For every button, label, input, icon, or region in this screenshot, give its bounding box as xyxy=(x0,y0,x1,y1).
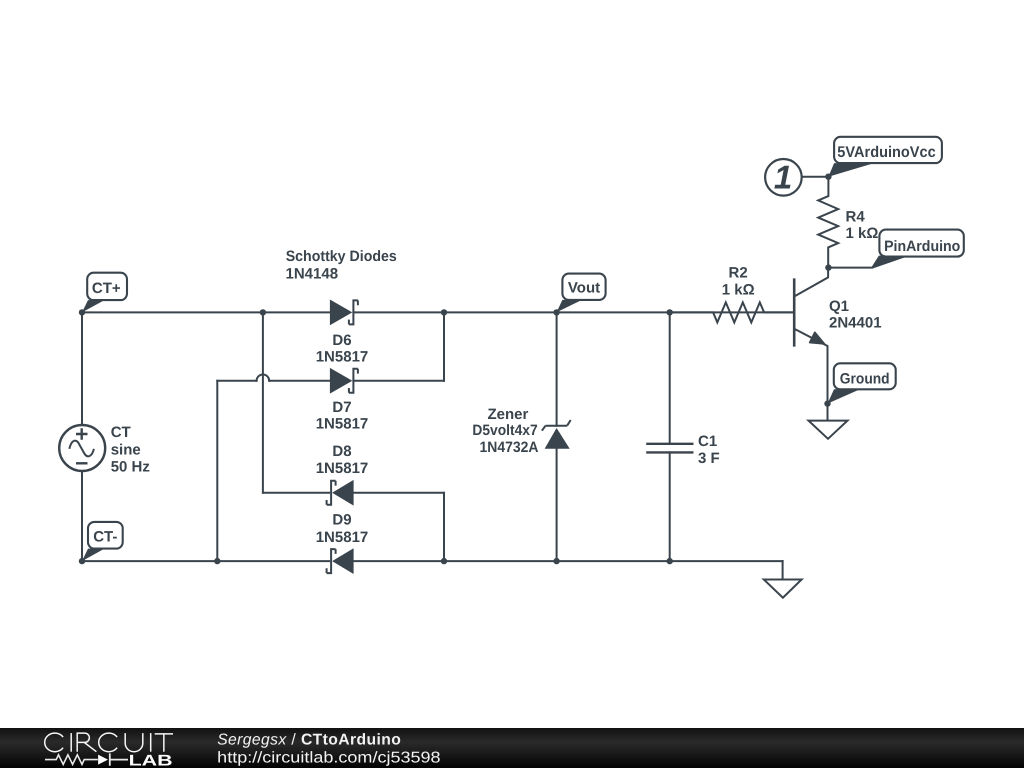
junction node Ground xyxy=(824,400,830,406)
transistor Q1 xyxy=(794,268,828,404)
svg-text:PinArduino: PinArduino xyxy=(884,238,960,255)
svg-text:1N5817: 1N5817 xyxy=(316,348,369,365)
flag 5VArduinoVcc xyxy=(828,137,941,177)
junction top rail / D8 branch xyxy=(260,309,266,315)
wire hop over x=262.9 xyxy=(257,374,270,380)
svg-text:3 F: 3 F xyxy=(698,450,720,467)
I xyxy=(150,733,152,752)
junction top rail / D7 branch xyxy=(441,309,447,315)
junction bottom rail / zener branch xyxy=(553,558,559,564)
svg-text:sine: sine xyxy=(111,441,141,458)
flag CT+ xyxy=(82,273,127,313)
svg-text:1N5817: 1N5817 xyxy=(316,460,369,477)
svg-text:1 kΩ: 1 kΩ xyxy=(722,281,755,298)
wire vertical x=444 lower xyxy=(443,493,445,561)
svg-text:50 Hz: 50 Hz xyxy=(111,459,150,476)
svg-text:1N4732A: 1N4732A xyxy=(480,439,539,456)
junction node CT+ top rail xyxy=(79,309,85,315)
svg-text:1: 1 xyxy=(774,158,792,195)
wire bottom right ground stub xyxy=(782,561,784,579)
diode D6 xyxy=(330,300,358,324)
logo diode xyxy=(98,755,108,765)
svg-text:D8: D8 xyxy=(332,443,351,460)
svg-text:Q1: Q1 xyxy=(829,298,849,315)
wire vertical x=262.9 xyxy=(262,312,264,492)
svg-text:1N5817: 1N5817 xyxy=(316,415,369,432)
flag PinArduino xyxy=(828,230,963,268)
voltage source CT xyxy=(59,425,105,471)
resistor R2 xyxy=(670,302,794,322)
U xyxy=(125,733,143,752)
svg-text:C1: C1 xyxy=(698,433,717,450)
svg-text:http://circuitlab.com/cj53598: http://circuitlab.com/cj53598 xyxy=(217,750,441,767)
diode D7 xyxy=(330,369,358,393)
flag Ground xyxy=(828,363,896,403)
node 1 circle xyxy=(765,158,828,195)
junction bottom rail / D7 left leg xyxy=(214,558,220,564)
svg-text:R4: R4 xyxy=(846,208,866,225)
junction node 5VArduinoVcc xyxy=(825,174,831,180)
I xyxy=(70,733,72,752)
wire C1 branch vertical xyxy=(669,312,671,561)
svg-text:CT: CT xyxy=(111,424,131,441)
svg-text:D7: D7 xyxy=(332,399,351,416)
svg-text:1N5817: 1N5817 xyxy=(316,529,369,546)
bottom bar xyxy=(0,726,1024,768)
svg-text:Schottky Diodes: Schottky Diodes xyxy=(286,248,397,265)
svg-text:D6: D6 xyxy=(332,332,351,349)
diode D8 xyxy=(327,481,354,505)
wire D8 row xyxy=(263,492,444,494)
svg-text:2N4401: 2N4401 xyxy=(829,314,882,331)
CircuitLab logo word CIRCUIT (drawn letters) xyxy=(45,733,173,752)
R xyxy=(77,733,96,752)
svg-text:1 kΩ: 1 kΩ xyxy=(846,225,879,242)
capacitor C1 xyxy=(646,444,693,453)
logo resistor xyxy=(45,755,98,765)
flag CT- xyxy=(82,522,123,561)
zener D5 xyxy=(542,420,571,448)
svg-text:CT-: CT- xyxy=(93,529,117,546)
junction bottom rail / D8 branch xyxy=(441,558,447,564)
C xyxy=(99,733,117,752)
svg-text:LAB: LAB xyxy=(129,753,173,768)
wire zener branch vertical xyxy=(556,312,558,561)
svg-text:Sergegsx / CTtoArduino: Sergegsx / CTtoArduino xyxy=(217,732,401,749)
svg-text:Ground: Ground xyxy=(840,371,890,388)
junction node PinArduino xyxy=(825,264,831,270)
flag Vout xyxy=(557,274,606,313)
wire source to CT- xyxy=(81,471,83,561)
svg-text:1N4148: 1N4148 xyxy=(286,266,339,283)
emitter arrow Q1 xyxy=(810,332,825,344)
svg-text:Zener: Zener xyxy=(487,406,528,423)
junction bottom rail / C1 branch xyxy=(667,558,673,564)
T xyxy=(155,734,173,752)
svg-text:CT+: CT+ xyxy=(92,280,121,297)
wire vertical x=444 upper xyxy=(443,312,445,380)
wire top rail xyxy=(82,311,793,313)
svg-text:D9: D9 xyxy=(332,512,351,529)
C xyxy=(45,733,63,752)
junction node CT- bottom rail xyxy=(79,558,85,564)
svg-text:D5volt4x7: D5volt4x7 xyxy=(472,422,537,439)
wire vertical x=217 D7 left leg xyxy=(216,381,218,561)
junction node Vout xyxy=(553,309,559,315)
wire bottom rail xyxy=(82,560,783,562)
wire D7 row xyxy=(217,380,444,382)
diode D9 xyxy=(327,549,354,573)
svg-text:R2: R2 xyxy=(729,264,748,281)
ground symbol below Q1 xyxy=(809,404,848,439)
svg-text:Vout: Vout xyxy=(568,279,600,296)
junction top rail / C1 branch xyxy=(667,309,673,315)
svg-text:5VArduinoVcc: 5VArduinoVcc xyxy=(837,144,936,161)
resistor R4 xyxy=(818,177,838,268)
ground symbol bottom right xyxy=(764,580,802,598)
wire left vertical CT+ to source xyxy=(81,312,83,425)
